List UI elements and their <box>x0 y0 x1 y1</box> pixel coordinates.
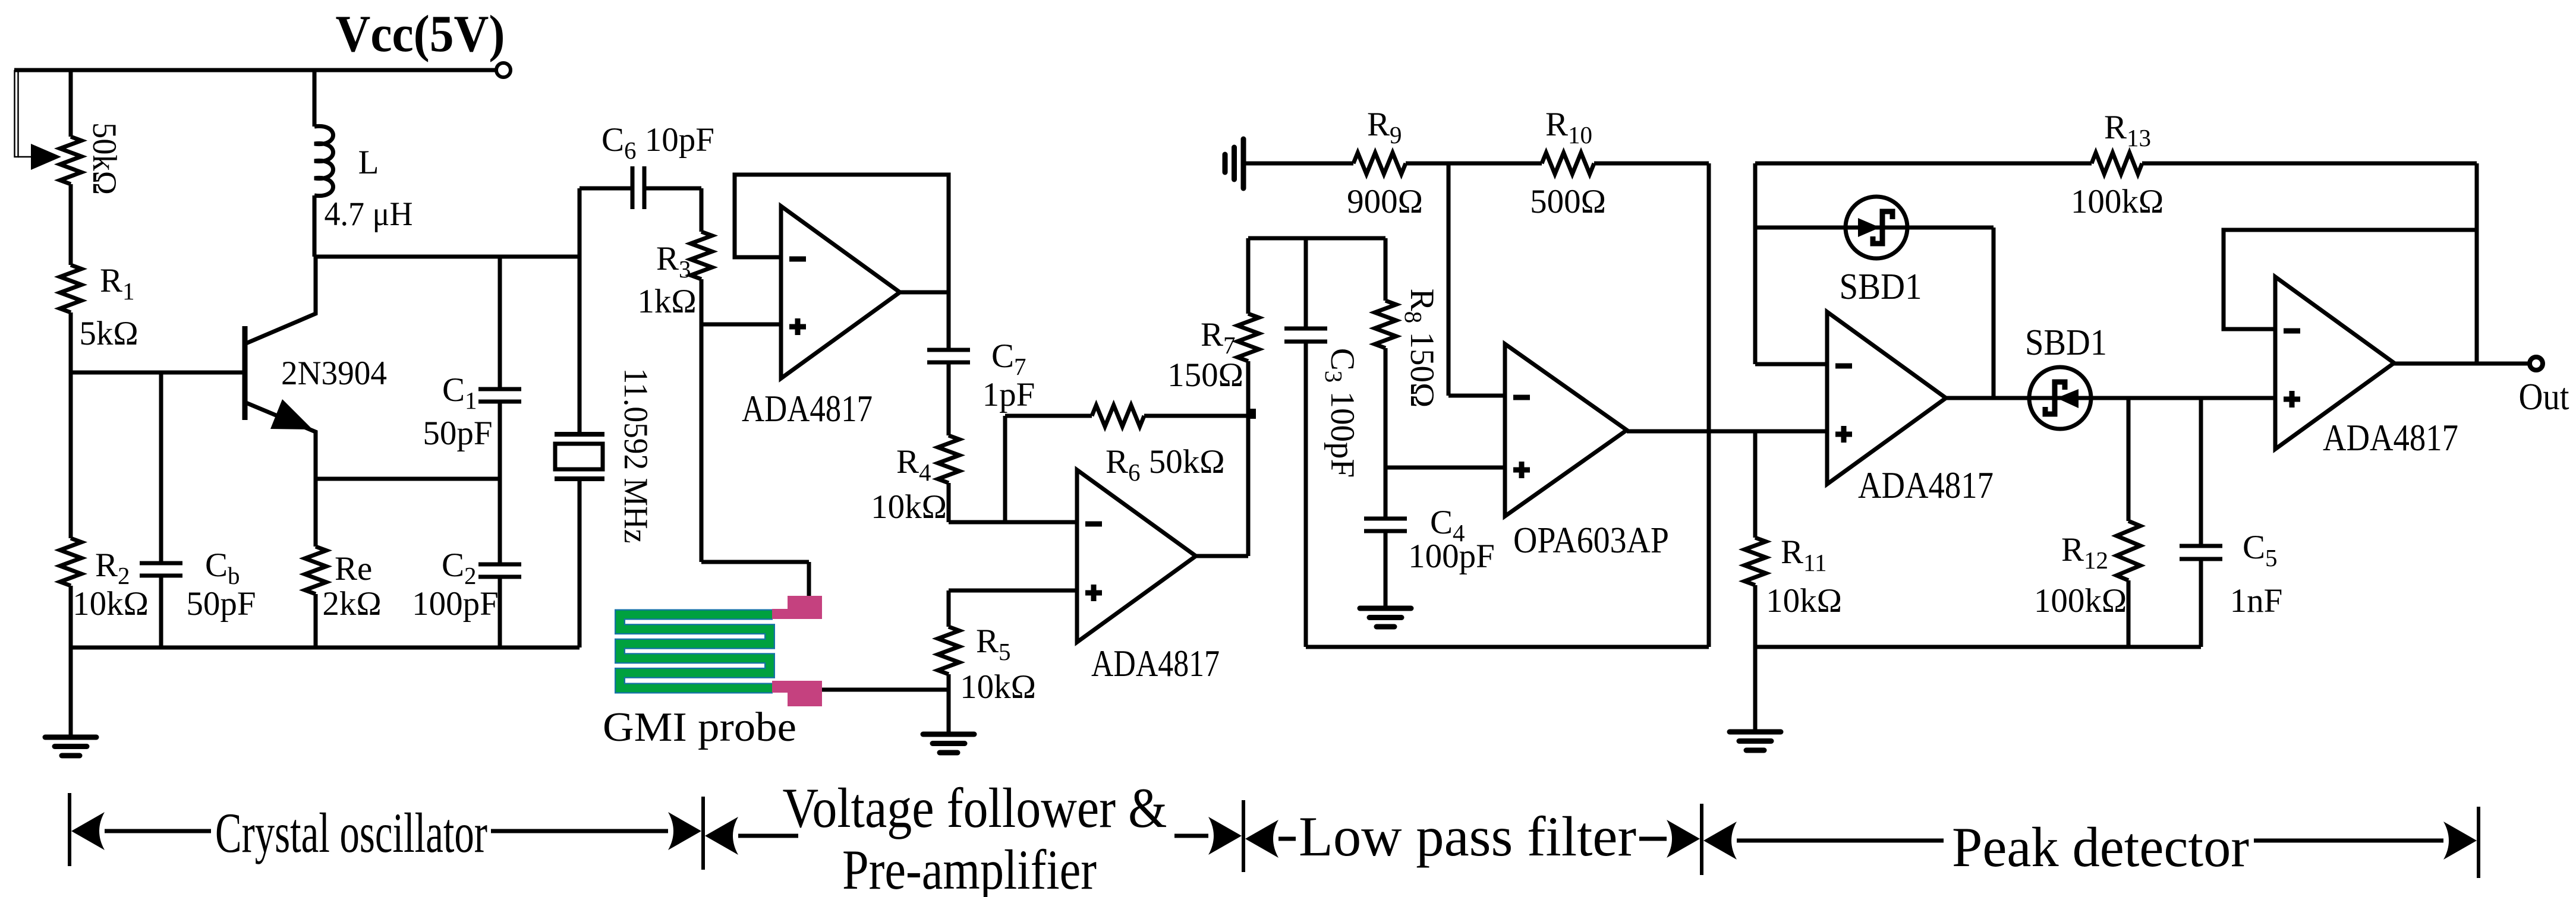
tick A <box>68 793 71 866</box>
wire pot to R1 <box>69 184 73 265</box>
ADA4817 label U2 <box>1091 643 1220 684</box>
svg-text:R6 50kΩ: R6 50kΩ <box>1106 443 1225 486</box>
resistor R7 <box>1237 314 1259 361</box>
resistor R12 <box>2117 521 2140 580</box>
GMI probe label <box>603 705 796 750</box>
probe output wire <box>809 688 949 692</box>
GMI probe bottom pad <box>772 681 822 706</box>
inductor L <box>314 126 333 195</box>
1nF label <box>2230 582 2283 620</box>
Pre-amplifier label <box>842 838 1097 897</box>
collector node wire <box>314 255 580 259</box>
R3 label <box>656 240 691 283</box>
transistor Q1 base bar <box>243 326 248 420</box>
R8 150Ohm label <box>1400 289 1441 408</box>
feedback vertical right <box>1707 163 1711 647</box>
resistor R10 <box>1542 153 1594 174</box>
resistor R9 <box>1353 153 1406 174</box>
R7 label <box>1201 316 1236 359</box>
wire R1 to base node <box>69 312 73 538</box>
resistor R6 <box>1092 405 1144 427</box>
resistor R8 <box>1375 301 1396 348</box>
op2 output wire <box>1196 554 1248 558</box>
Out terminal <box>2530 357 2543 370</box>
50pF label Cb <box>186 585 256 623</box>
wire C4 top <box>1384 468 1388 519</box>
capacitor C3 <box>1284 329 1327 342</box>
4.7uH label <box>325 195 413 233</box>
svg-text:ADA4817: ADA4817 <box>1858 465 1994 506</box>
wire R9 to R10 <box>1406 162 1542 166</box>
R6 50kOhm label <box>1106 443 1225 486</box>
C4 label <box>1430 504 1465 547</box>
op1 output wire <box>900 290 949 295</box>
wire node to crystal <box>578 257 582 434</box>
op5 feedback <box>2224 230 2477 329</box>
svg-text:ADA4817: ADA4817 <box>742 388 873 429</box>
wire R3 top <box>700 188 704 232</box>
op-amp U2 <box>1077 470 1196 642</box>
svg-text:11.0592 MHz: 11.0592 MHz <box>617 368 654 544</box>
tick C <box>1242 800 1245 872</box>
2kOhm label <box>322 585 381 623</box>
wire to probe pad <box>701 562 809 611</box>
svg-text:2N3904: 2N3904 <box>281 355 387 392</box>
capacitor C3 wire top <box>1304 238 1308 329</box>
wire R8 top <box>1384 238 1388 301</box>
svg-text:50kΩ: 50kΩ <box>86 122 123 195</box>
svg-text:50pF: 50pF <box>186 585 256 623</box>
potentiometer wiper arrow <box>31 144 61 170</box>
11.0592 MHz label <box>617 368 654 544</box>
tick D <box>1700 804 1703 875</box>
capacitor C7 <box>927 350 970 362</box>
svg-text:Vcc(5V): Vcc(5V) <box>336 5 505 63</box>
node junction vertical <box>1447 163 1451 396</box>
op-amp U3 OPA603AP <box>1505 344 1627 516</box>
ground main <box>45 737 96 756</box>
GMI probe meander <box>620 615 773 688</box>
svg-text:Re: Re <box>335 550 372 588</box>
svg-text:500Ω: 500Ω <box>1530 183 1606 220</box>
op3 minus wire <box>1755 362 1827 367</box>
svg-text:R8 150Ω: R8 150Ω <box>1400 289 1441 408</box>
wire to C6 <box>580 187 632 191</box>
resistor R3 <box>691 232 712 279</box>
wire R11 bottom <box>1753 585 1758 731</box>
wire R13 left vertical <box>1753 163 1758 364</box>
lpf top wire <box>1248 236 1385 241</box>
wire Cb to bottom rail <box>159 576 163 648</box>
svg-text:10kΩ: 10kΩ <box>1766 582 1842 620</box>
low pass filter arrows <box>1245 820 1700 858</box>
R12 label <box>2061 531 2108 574</box>
op3 output wire <box>1946 396 2029 400</box>
resistor R2 <box>60 538 81 586</box>
capacitor C4 <box>1364 519 1407 531</box>
svg-text:Peak detector: Peak detector <box>1952 816 2249 879</box>
op1 plus wire <box>701 323 781 327</box>
wire to main ground <box>69 648 73 737</box>
wire C7 to R4 <box>947 362 951 435</box>
op2 plus wire <box>949 589 1077 593</box>
svg-text:SBD1: SBD1 <box>1840 267 1922 307</box>
wire C1 top <box>498 257 502 389</box>
transistor Q1 collector <box>246 257 316 343</box>
svg-text:1pF: 1pF <box>982 376 1035 413</box>
resistor R1 <box>60 265 81 312</box>
wire C5 bottom <box>2199 559 2203 647</box>
svg-text:Low pass filter: Low pass filter <box>1299 805 1636 868</box>
svg-text:Crystal oscillator: Crystal oscillator <box>215 801 487 864</box>
50pF label C1 <box>423 415 492 452</box>
capacitor C6 <box>632 166 644 209</box>
5kOhm label <box>79 315 138 352</box>
R5 label <box>976 623 1011 665</box>
potentiometer 50k <box>60 137 81 184</box>
100pF label C4 <box>1408 538 1495 575</box>
100pF label C2 <box>412 585 499 623</box>
900Ohm label <box>1347 183 1423 220</box>
base wire <box>71 371 245 375</box>
R10 label <box>1545 106 1592 149</box>
C1 label <box>442 371 477 414</box>
SBD1 first wire right <box>1907 226 1994 230</box>
ADA4817 label U4 <box>1858 465 1994 506</box>
svg-text:100kΩ: 100kΩ <box>2034 582 2127 620</box>
R1 label <box>100 262 135 305</box>
wire R12 bottom <box>2127 580 2131 647</box>
op5 output wire <box>2394 362 2530 366</box>
wire Re top <box>314 479 318 547</box>
R13 feedback wire right <box>2142 162 2477 166</box>
Crystal oscillator label <box>215 801 487 864</box>
svg-text:10kΩ: 10kΩ <box>73 585 149 623</box>
R13 feedback wire left <box>1755 162 2092 166</box>
tick E <box>2477 807 2480 878</box>
resistor R13 <box>2092 153 2142 174</box>
wire Re bottom <box>314 594 318 648</box>
wire R6 right <box>1144 414 1248 418</box>
C6 10pF label <box>602 121 714 164</box>
100kOhm label R12 <box>2034 582 2127 620</box>
op-amp U4 <box>1827 312 1946 484</box>
Cb label <box>205 547 240 589</box>
wire rail to L <box>313 70 317 127</box>
10kOhm label R4 <box>871 488 947 526</box>
R13 label <box>2104 109 2151 151</box>
svg-text:5kΩ: 5kΩ <box>79 315 138 352</box>
svg-text:100pF: 100pF <box>1408 538 1495 575</box>
svg-text:1kΩ: 1kΩ <box>637 283 696 320</box>
svg-text:2kΩ: 2kΩ <box>322 585 381 623</box>
wire R2 to bottom rail <box>69 586 73 648</box>
10kOhm label R2 <box>73 585 149 623</box>
150Ohm label R7 <box>1167 356 1243 394</box>
wire R3 to plus node <box>700 279 704 324</box>
resistor R11 <box>1744 538 1766 585</box>
svg-text:SBD1: SBD1 <box>2025 323 2107 363</box>
R2 label <box>95 547 130 589</box>
2N3904 label <box>281 355 387 392</box>
C5 label <box>2243 529 2278 571</box>
lpf bottom wire <box>1306 645 1709 649</box>
wire R6 left <box>1005 414 1092 418</box>
op4 feedback vertical right <box>2475 163 2479 364</box>
Peak detector label <box>1952 816 2249 879</box>
L label <box>358 144 379 181</box>
wire op1 out to C7 <box>947 292 951 350</box>
Re label <box>335 550 372 588</box>
wire op2 out up <box>1246 416 1251 556</box>
wire C6 to R3 <box>644 187 701 191</box>
R9 label <box>1367 106 1402 149</box>
OPA603AP label <box>1513 520 1669 561</box>
ground C4 <box>1360 608 1411 627</box>
wire C2 bottom <box>498 577 502 648</box>
resistor R5 <box>938 627 959 674</box>
svg-text:50pF: 50pF <box>423 415 492 452</box>
Voltage follower label <box>783 776 1167 839</box>
svg-text:GMI probe: GMI probe <box>603 705 796 750</box>
svg-text:150Ω: 150Ω <box>1167 356 1243 394</box>
wire plus node down <box>700 324 704 562</box>
wire C5 top <box>2199 398 2203 546</box>
Vcc(5V) label <box>336 5 505 63</box>
potentiometer wiper wire <box>15 71 32 157</box>
ADA4817 label U5 <box>2323 417 2458 459</box>
1kOhm label <box>637 283 696 320</box>
wire node up to C6 <box>578 188 582 257</box>
ground R11 <box>1730 732 1781 750</box>
wire L to collector node <box>313 195 317 257</box>
voltage follower arrows <box>705 817 1242 855</box>
10kOhm label R11 <box>1766 582 1842 620</box>
C2 label <box>442 547 477 589</box>
capacitor C2 wire top <box>498 479 502 564</box>
ground R5 <box>923 734 974 753</box>
crystal oscillator arrows <box>71 812 701 850</box>
transistor Q1 emitter arrow <box>270 399 313 429</box>
svg-text:ADA4817: ADA4817 <box>1091 643 1220 684</box>
SBD1 label first <box>1840 267 1922 307</box>
svg-text:900Ω: 900Ω <box>1347 183 1423 220</box>
opLP output wire <box>1627 429 1827 434</box>
wire R11 top <box>1753 431 1758 538</box>
transistor Q1 emitter <box>246 403 316 479</box>
op-amp U5 <box>2275 277 2394 449</box>
capacitor C5 <box>2180 546 2222 559</box>
svg-text:10kΩ: 10kΩ <box>960 668 1036 706</box>
R11 label <box>1781 533 1827 576</box>
capacitor Cb <box>140 563 182 576</box>
wire crystal to bottom rail <box>578 479 582 648</box>
R6 branch vertical <box>1003 416 1007 522</box>
wire R7 top <box>1246 238 1251 314</box>
peak detector arrows <box>1703 822 2477 860</box>
svg-text:Out: Out <box>2519 375 2569 418</box>
svg-text:Voltage follower &: Voltage follower & <box>783 776 1167 839</box>
SBD1 first wire left <box>1755 226 1846 230</box>
wire R8 to plus node <box>1384 348 1388 468</box>
capacitor Cb wire top <box>159 372 163 563</box>
C7 label <box>991 337 1026 380</box>
svg-text:C3 100pF: C3 100pF <box>1320 348 1361 478</box>
svg-text:10kΩ: 10kΩ <box>871 488 947 526</box>
wire C1 bottom <box>498 402 502 479</box>
peak detector bottom wire <box>1755 645 2201 649</box>
ground left of R9 <box>1225 139 1243 188</box>
op-amp U1 <box>781 206 900 378</box>
Vcc terminal <box>496 63 511 77</box>
svg-text:100kΩ: 100kΩ <box>2071 183 2164 220</box>
svg-text:OPA603AP: OPA603AP <box>1513 520 1669 561</box>
peak detector output wire <box>2091 396 2275 400</box>
100kOhm label R13 <box>2071 183 2164 220</box>
500Ohm label <box>1530 183 1606 220</box>
svg-text:1nF: 1nF <box>2230 582 2283 620</box>
wire C4 to ground <box>1384 531 1388 607</box>
wire R7 bottom <box>1248 361 1256 419</box>
resistor R4 <box>938 435 959 483</box>
GMI probe top pad <box>772 596 822 619</box>
50kOhm label <box>86 122 123 195</box>
crystal X1 <box>555 434 604 479</box>
svg-text:100pF: 100pF <box>412 585 499 623</box>
capacitor C1 <box>478 389 521 402</box>
wire R4 to minus node <box>947 483 951 522</box>
wire SBD1 down <box>1992 228 1996 398</box>
Low pass filter label <box>1299 805 1636 868</box>
svg-text:L: L <box>358 144 379 181</box>
wire R5 bottom <box>947 674 951 734</box>
R4 label <box>896 443 931 486</box>
ADA4817 label U1 <box>742 388 873 429</box>
diode SBD1 second <box>2029 367 2091 429</box>
op2 minus wire <box>949 520 1077 525</box>
1pF label <box>982 376 1035 413</box>
svg-text:4.7 μH: 4.7 μH <box>325 195 413 233</box>
svg-text:ADA4817: ADA4817 <box>2323 417 2458 459</box>
tick B <box>701 797 705 870</box>
resistor Re <box>305 547 326 594</box>
op1 feedback wire <box>735 175 949 292</box>
wire R5 top <box>947 590 951 627</box>
emitter wire <box>316 477 500 481</box>
diode SBD1 first <box>1846 197 1907 258</box>
svg-text:Pre-amplifier: Pre-amplifier <box>842 838 1097 897</box>
opLP minus wire <box>1448 394 1505 398</box>
capacitor C2 <box>478 564 521 577</box>
bottom rail <box>71 646 580 650</box>
SBD1 label second <box>2025 323 2107 363</box>
svg-text:C6 10pF: C6 10pF <box>602 121 714 164</box>
10kOhm label R5 <box>960 668 1036 706</box>
wire R10 right <box>1594 162 1709 166</box>
opLP plus wire <box>1385 466 1505 470</box>
Out label <box>2519 375 2569 418</box>
wire R12 top <box>2127 398 2131 521</box>
wire C3 to bottom wire <box>1304 342 1308 647</box>
wire pot top <box>69 70 73 137</box>
C3 100pF label <box>1320 348 1361 478</box>
wire ground to R9 <box>1243 162 1353 166</box>
net Vcc top rail <box>14 68 496 72</box>
